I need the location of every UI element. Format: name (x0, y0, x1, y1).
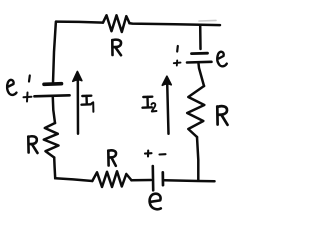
battery e2 top-right: long plate (187, 60, 212, 63)
wire top-left horizontal segment (56, 22, 103, 23)
battery e2 top-right: short plate (192, 52, 208, 55)
label R2 value R (217, 106, 227, 125)
faint overdraw stroke top-right (199, 19, 216, 22)
wire top-right horizontal segment (130, 23, 221, 25)
label I1 (82, 96, 94, 112)
battery e3 polarity minus (160, 153, 166, 155)
label e3 value e (150, 194, 161, 210)
wire left vertical lower (54, 158, 55, 179)
label e2 value e (217, 52, 226, 67)
label R1 value R (112, 40, 121, 56)
battery e1 left: long plate (bottom) (35, 95, 70, 96)
battery e2 polarity tick (minus) (176, 46, 179, 52)
label I2 (143, 97, 157, 112)
battery e3 bottom: short plate (right) (161, 172, 164, 185)
battery e2 polarity plus (174, 61, 181, 66)
wire resistor R4 to battery e1 (53, 98, 55, 124)
battery e1 polarity plus (24, 93, 32, 102)
battery e1 left: short plate (top, thick) (44, 82, 62, 86)
current arrow I2 (162, 76, 171, 134)
resistor R4 left zigzag (44, 123, 59, 158)
current arrow I1 (73, 72, 82, 134)
label R3 value R (108, 150, 116, 165)
label e1 value e (7, 80, 16, 95)
wire vertical drop to battery e2 (199, 25, 202, 49)
resistor R2 right zigzag (187, 86, 204, 137)
battery e1 polarity tick (minus) (28, 76, 31, 82)
wire left vertical upper (53, 22, 56, 83)
label R4 value R (28, 136, 37, 153)
resistor R3 bottom zigzag (92, 171, 131, 187)
battery e3 bottom: long plate (left) (152, 166, 155, 190)
wire battery e3 to resistor R3 (132, 179, 152, 182)
wire resistor R2 to bottom rail (197, 137, 198, 181)
wire bottom-right rail with overhang (165, 180, 215, 181)
resistor R1 top zigzag (103, 15, 130, 32)
wire bottom-left rail (55, 178, 92, 181)
wire battery e2 to resistor R2 (199, 64, 205, 87)
battery e3 polarity plus (145, 151, 152, 157)
